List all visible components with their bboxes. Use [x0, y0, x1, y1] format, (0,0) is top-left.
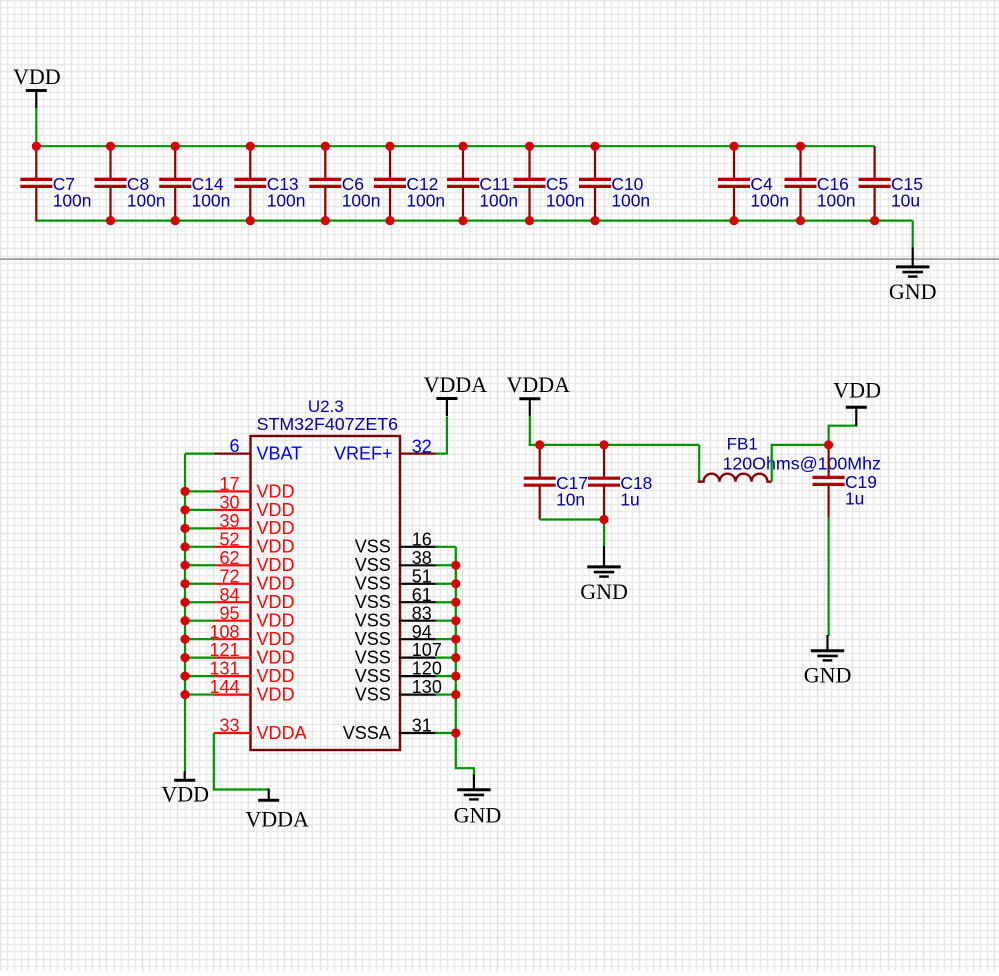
pin 120 VSS [355, 659, 442, 686]
wire VDD pin 108 to bus [185, 638, 215, 640]
svg-text:VSS: VSS [355, 537, 391, 557]
svg-text:120Ohms@100Mhz: 120Ohms@100Mhz [723, 453, 881, 473]
svg-text:1u: 1u [845, 489, 864, 509]
wire VDD pin 39 to bus [185, 527, 215, 529]
capacitor C17 10n [524, 445, 588, 520]
wire C19 to GND [827, 518, 829, 636]
svg-text:VSS: VSS [355, 592, 391, 612]
junction top rail at C16 [796, 142, 805, 151]
svg-text:16: 16 [412, 529, 432, 549]
junction C18 top [599, 440, 608, 449]
junction left bus pin 39 [180, 524, 189, 533]
junction left bus pin 30 [180, 505, 189, 514]
junction bottom rail at C15 [870, 216, 879, 225]
svg-text:100n: 100n [342, 191, 381, 211]
pin 61 VSS [355, 585, 437, 612]
svg-text:VBAT: VBAT [257, 443, 303, 463]
svg-text:VDD: VDD [257, 666, 295, 686]
junction bottom rail at C10 [590, 216, 599, 225]
junction bottom rail at C12 [385, 216, 394, 225]
svg-text:100n: 100n [546, 191, 585, 211]
ferrite bead FB1 [698, 434, 881, 481]
chip U2.3 STM32F407ZET6 body [251, 436, 401, 750]
junction top rail at C8 [106, 142, 115, 151]
svg-text:VSS: VSS [355, 648, 391, 668]
junction right bus pin 51 [451, 579, 460, 588]
svg-text:VSS: VSS [355, 685, 391, 705]
svg-text:VDD: VDD [257, 611, 295, 631]
junction right bus pin 94 [451, 635, 460, 644]
svg-text:VSS: VSS [355, 666, 391, 686]
wire VDD pin 144 to bus [185, 693, 215, 695]
pin 72 VDD [214, 566, 295, 593]
svg-text:72: 72 [219, 566, 239, 586]
svg-text:VDD: VDD [257, 592, 295, 612]
junction top rail at C6 [321, 142, 330, 151]
svg-text:VDD: VDD [257, 629, 295, 649]
wire VSS pin 51 to bus [435, 583, 455, 585]
pin 62 VDD [214, 548, 295, 575]
svg-text:100n: 100n [127, 191, 166, 211]
capacitor C18 1u [588, 445, 652, 520]
svg-text:VDDA: VDDA [424, 372, 488, 397]
wire VREF+ to VDDA symbol [435, 417, 447, 454]
pin 121 VDD [209, 640, 294, 667]
svg-text:62: 62 [219, 548, 239, 568]
capacitor C10 100n [579, 146, 650, 220]
capacitor C5 100n [514, 146, 585, 220]
svg-text:30: 30 [219, 493, 239, 513]
junction left bus pin 144 [180, 690, 189, 699]
svg-text:6: 6 [229, 436, 239, 456]
pin 39 VDD [214, 511, 295, 538]
junction bottom rail at C11 [458, 216, 467, 225]
svg-text:FB1: FB1 [727, 434, 758, 453]
wire left VDD bus vertical [184, 454, 186, 773]
svg-text:39: 39 [219, 511, 239, 531]
wire VSS pin 83 to bus [435, 620, 455, 622]
junction right bus pin 130 [451, 690, 460, 699]
junction left bus pin 52 [180, 542, 189, 551]
pin 16 VSS [355, 529, 437, 556]
wire FB1 right up [772, 445, 829, 482]
capacitor C13 100n [234, 146, 305, 220]
svg-text:VDD: VDD [13, 64, 61, 89]
power symbol VDD analog [833, 377, 881, 425]
junction bottom rail at C16 [796, 216, 805, 225]
svg-text:10n: 10n [556, 489, 585, 509]
pin 17 VDD [214, 474, 295, 501]
svg-text:VDD: VDD [257, 481, 295, 501]
wire C17-C18 bottom [540, 518, 604, 520]
junction top rail at C12 [385, 142, 394, 151]
junction left bus pin 62 [180, 561, 189, 570]
junction right bus pin 107 [451, 653, 460, 662]
wire VDDA pin down-left [214, 733, 269, 790]
ground GND below C19 [804, 635, 852, 688]
svg-text:100n: 100n [479, 191, 518, 211]
svg-text:VSS: VSS [355, 629, 391, 649]
svg-text:GND: GND [889, 279, 937, 304]
junction left bus pin 131 [180, 672, 189, 681]
wire VSS pin 130 to bus [435, 693, 455, 695]
svg-text:100n: 100n [817, 191, 856, 211]
junction bottom rail at C4 [729, 216, 738, 225]
junction left bus pin 95 [180, 616, 189, 625]
junction C18 bottom [599, 515, 608, 524]
svg-text:VDD: VDD [257, 555, 295, 575]
svg-text:31: 31 [412, 716, 432, 736]
wire VDD pin 52 to bus [185, 546, 215, 548]
power symbol VDDA bottom [245, 788, 309, 831]
svg-text:VDD: VDD [257, 537, 295, 557]
wire VSS pin 94 to bus [435, 638, 455, 640]
svg-text:100n: 100n [750, 191, 789, 211]
wire VDDA down [529, 416, 531, 447]
svg-text:33: 33 [219, 716, 239, 736]
junction bottom rail at C14 [171, 216, 180, 225]
svg-text:VDD: VDD [257, 648, 295, 668]
junction top rail at C14 [171, 142, 180, 151]
svg-text:52: 52 [219, 529, 239, 549]
svg-text:38: 38 [412, 548, 432, 568]
pin 107 VSS [355, 640, 442, 667]
wire VDD pin 17 to bus [185, 490, 215, 492]
svg-text:STM32F407ZET6: STM32F407ZET6 [257, 414, 398, 434]
svg-text:VDD: VDD [833, 377, 881, 402]
pin 33 VDDA [214, 716, 307, 743]
svg-text:VREF+: VREF+ [334, 443, 393, 463]
junction top rail at C11 [458, 142, 467, 151]
wire VDD pin 95 to bus [185, 620, 215, 622]
wire VDD pin 84 to bus [185, 601, 215, 603]
wire to FB1 left [698, 445, 700, 482]
wire VDD pin 62 to bus [185, 564, 215, 566]
pin 32 VREF+ [334, 436, 436, 463]
wire top VDD rail [35, 145, 874, 147]
pin 38 VSS [355, 548, 437, 575]
svg-text:10u: 10u [891, 191, 920, 211]
pin 144 VDD [209, 677, 294, 704]
capacitor C4 100n [718, 146, 789, 220]
pin 108 VDD [209, 622, 294, 649]
junction bottom rail at C6 [321, 216, 330, 225]
svg-text:61: 61 [412, 585, 432, 605]
svg-text:VSS: VSS [355, 574, 391, 594]
pin 52 VDD [214, 529, 295, 556]
capacitor C8 100n [95, 146, 166, 220]
wire VSS pin 38 to bus [435, 564, 455, 566]
junction top rail at C13 [246, 142, 255, 151]
pin 131 VDD [209, 659, 294, 686]
svg-text:VDD: VDD [257, 518, 295, 538]
pin 83 VSS [355, 603, 437, 630]
wire VDDA net horizontal [529, 444, 700, 446]
power symbol VDD top-left [13, 64, 61, 108]
capacitor C16 100n [785, 146, 856, 220]
junction right bus pin 31 [451, 728, 460, 737]
svg-text:VDD: VDD [257, 685, 295, 705]
wire to GND analog [603, 520, 605, 548]
junction C19 top [824, 440, 833, 449]
svg-text:100n: 100n [53, 191, 92, 211]
svg-text:51: 51 [412, 566, 432, 586]
svg-text:VSS: VSS [355, 555, 391, 575]
wire VDD to C19 junction [829, 424, 857, 445]
wire VSSA to bus [435, 732, 455, 734]
svg-text:83: 83 [412, 603, 432, 623]
capacitor C7 100n [20, 146, 91, 220]
junction top rail at C5 [525, 142, 534, 151]
svg-text:GND: GND [580, 579, 628, 604]
junction right bus pin 83 [451, 616, 460, 625]
pin 30 VDD [214, 493, 295, 520]
wire VSS pin 16 to bus [435, 546, 455, 548]
junction C17 top [535, 440, 544, 449]
svg-text:100n: 100n [406, 191, 445, 211]
power symbol VDDA above VREF+ [424, 372, 488, 416]
pin 31 VSSA [343, 716, 437, 743]
separator line [0, 258, 999, 260]
svg-text:VSS: VSS [355, 611, 391, 631]
capacitor C15 10u [859, 146, 923, 220]
wire VDD pin 30 to bus [185, 509, 215, 511]
ground GND top-right [889, 248, 937, 304]
wire right VSS bus vertical [455, 547, 457, 770]
svg-text:GND: GND [454, 803, 502, 828]
svg-text:95: 95 [219, 603, 239, 623]
wire VDD pin 121 to bus [185, 657, 215, 659]
svg-text:1u: 1u [620, 489, 639, 509]
junction left bus pin 121 [180, 653, 189, 662]
svg-text:VDDA: VDDA [257, 723, 307, 743]
wire VSS bus to GND [456, 768, 474, 775]
wire VDD pin 131 to bus [185, 675, 215, 677]
pin 6 VBAT [214, 436, 303, 463]
junction left bus pin 17 [180, 487, 189, 496]
wire VDD to top rail [35, 108, 37, 146]
capacitor C11 100n [447, 146, 518, 220]
wire VSS pin 61 to bus [435, 601, 455, 603]
svg-text:VSSA: VSSA [343, 723, 391, 743]
junction left bus pin 108 [180, 635, 189, 644]
wire VDD pin 72 to bus [185, 583, 215, 585]
svg-text:100n: 100n [611, 191, 650, 211]
svg-text:100n: 100n [192, 191, 231, 211]
svg-text:94: 94 [412, 622, 432, 642]
junction bottom rail at C8 [106, 216, 115, 225]
junction right bus pin 120 [451, 672, 460, 681]
junction right bus pin 61 [451, 598, 460, 607]
junction right bus pin 38 [451, 561, 460, 570]
capacitor C19 1u [813, 445, 877, 518]
ground GND analog [580, 546, 628, 604]
svg-text:VDDA: VDDA [507, 372, 571, 397]
svg-text:VDD: VDD [257, 574, 295, 594]
svg-text:100n: 100n [267, 191, 306, 211]
wire VSS pin 120 to bus [435, 675, 455, 677]
svg-text:84: 84 [219, 585, 239, 605]
wire bottom rail to GND [912, 221, 914, 249]
svg-text:32: 32 [412, 436, 432, 456]
capacitor C12 100n [374, 146, 445, 220]
wire VSS pin 107 to bus [435, 657, 455, 659]
capacitor C14 100n [159, 146, 230, 220]
svg-text:GND: GND [804, 663, 852, 688]
pin 84 VDD [214, 585, 295, 612]
junction left bus pin 72 [180, 579, 189, 588]
svg-text:17: 17 [219, 474, 239, 494]
junction bottom rail at C13 [246, 216, 255, 225]
svg-text:VDD: VDD [257, 500, 295, 520]
junction top rail at C4 [729, 142, 738, 151]
pin 95 VDD [214, 603, 295, 630]
wire VBAT to bus [185, 453, 215, 455]
power symbol VDD bottom-left [161, 771, 209, 806]
junction left bus pin 84 [180, 598, 189, 607]
svg-text:VDDA: VDDA [245, 806, 309, 831]
pin 51 VSS [355, 566, 437, 593]
junction bottom rail at C5 [525, 216, 534, 225]
svg-text:VDD: VDD [161, 782, 209, 807]
junction top rail at C7 [32, 142, 41, 151]
junction top rail at C10 [590, 142, 599, 151]
pin 130 VSS [355, 677, 442, 704]
wire bottom GND rail [35, 220, 913, 222]
capacitor C6 100n [309, 146, 380, 220]
power symbol VDDA analog [507, 372, 571, 416]
pin 94 VSS [355, 622, 437, 649]
ground GND below VSSA [454, 775, 502, 828]
